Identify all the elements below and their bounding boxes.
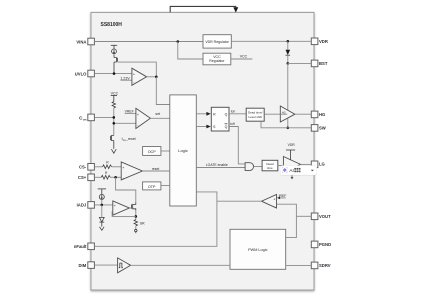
svg-text:SS8100H: SS8100H: [101, 22, 123, 28]
pin CS-: [88, 164, 95, 171]
wire PWM logic to SDRV: [286, 264, 312, 266]
wire dead time block to SW row: [261, 121, 311, 128]
pin HG: [311, 111, 318, 118]
wire OTP to Logic: [161, 185, 170, 187]
wire IREF input arrow: [279, 197, 286, 199]
wire Con to comparator input: [114, 122, 136, 124]
wire set output to Logic: [150, 117, 169, 119]
node VDR/diode junction: [287, 40, 290, 43]
ground (Con discharge): [111, 149, 116, 153]
svg-text:+: +: [114, 204, 116, 208]
wire R2 to comparator: [110, 176, 121, 178]
pin PGND: [311, 241, 318, 248]
wire VOUT row: [296, 215, 311, 217]
svg-text:VDR Regulator: VDR Regulator: [205, 40, 229, 44]
svg-text:Level shift: Level shift: [248, 115, 262, 119]
svg-text:on: on: [83, 117, 87, 121]
wire nFault row: [94, 192, 216, 246]
wire 1.23V reference input: [120, 79, 131, 81]
resistor R4 (SR): [134, 220, 137, 226]
svg-text:VDR: VDR: [319, 39, 328, 44]
wire VINA to VCC regulator: [178, 42, 203, 60]
svg-text:DIM: DIM: [79, 263, 87, 268]
op-amp U3 (on-time comparator): [136, 108, 151, 128]
op-amp U10 (current regulation amp): [262, 195, 277, 209]
svg-text:IADJ: IADJ: [77, 203, 87, 208]
transistor Q1 (UVLO hysteresis switch): [113, 54, 115, 57]
svg-text:nFault: nFault: [74, 244, 87, 249]
wire Con row: [94, 116, 113, 118]
wire OCP to Logic: [161, 150, 170, 152]
svg-text:SR: SR: [140, 222, 145, 226]
block Logic: [170, 95, 197, 206]
pin nFault: [88, 243, 95, 250]
sparkle icon: [282, 167, 287, 173]
svg-text:_reset: _reset: [125, 137, 136, 141]
svg-text:LG: LG: [319, 161, 325, 166]
node BST junction: [287, 62, 290, 65]
svg-text:VOUT: VOUT: [319, 214, 331, 219]
svg-text:+: +: [274, 198, 276, 202]
wire DIM buffer to PWM logic: [131, 264, 230, 266]
wire VCC regulator output stub: [231, 58, 253, 60]
IC body U1 (SS8100H outline): [91, 12, 314, 290]
svg-text:Dead time/: Dead time/: [248, 111, 263, 115]
wire SR to ground: [135, 226, 137, 229]
wire HG driver output: [295, 113, 311, 115]
wire IADJ row: [94, 204, 112, 206]
wire CS+ row: [94, 176, 101, 178]
block VDR Regulator: [203, 35, 231, 48]
wire VOUT to PWM logic: [286, 216, 297, 237]
wire VDR regulator output to VDR pin: [231, 40, 311, 42]
diode D1 (bootstrap VDR to BST): [286, 50, 291, 55]
svg-text:SW: SW: [319, 126, 326, 131]
pin VINA: [88, 38, 95, 45]
diode D2 (IADJ clamp): [99, 217, 104, 222]
AI assistant widget overlay: [280, 166, 317, 180]
node SW junction: [287, 127, 290, 130]
transistor Q2 (t_on_reset): [112, 136, 114, 141]
wire Q3 drain to CS+ node: [116, 177, 136, 202]
wire VDR to diode: [287, 41, 289, 50]
svg-text:OCP: OCP: [148, 150, 157, 154]
wire UVLO row: [94, 73, 131, 75]
svg-text:Q: Q: [225, 112, 228, 116]
svg-text:VINA: VINA: [76, 39, 86, 44]
svg-text:time: time: [267, 166, 273, 170]
svg-text:CS+: CS+: [78, 175, 87, 180]
resistor R2 (CS+): [101, 175, 110, 179]
svg-text:set: set: [155, 112, 160, 116]
pin UVLO: [88, 70, 95, 77]
op-amp U5 (IADJ amplifier): [113, 201, 130, 215]
transistor Q3 (IADJ output): [129, 207, 131, 209]
svg-text:Q: Q: [225, 125, 228, 129]
node VCC rail bar: [111, 94, 117, 96]
wire S input to latch: [196, 126, 206, 128]
wire Q to dead time block: [229, 113, 246, 115]
svg-text:VDR: VDR: [288, 143, 296, 147]
wire diode to BST row: [287, 55, 289, 63]
node Q3 source junction: [135, 215, 138, 218]
pin BST: [311, 60, 318, 67]
svg-text:HG: HG: [282, 112, 286, 115]
wire UVLO comparator output: [147, 76, 157, 78]
op-amp U11 (DIM buffer): [118, 258, 131, 273]
svg-text:+: +: [137, 113, 139, 117]
node Con branch junction: [113, 122, 116, 125]
current source I1 (UVLO pullup): [111, 44, 117, 46]
svg-text:CS-: CS-: [79, 165, 87, 170]
block Dead time (LG): [262, 160, 278, 171]
svg-text:Logic: Logic: [178, 148, 188, 153]
pin CS+: [88, 174, 95, 181]
wire dead time to HG driver: [264, 113, 280, 115]
node VINA/VCCreg junction: [177, 40, 180, 43]
node IADJ junction: [101, 204, 104, 207]
wire DIM row: [94, 264, 117, 266]
node Con/resistor junction: [113, 116, 116, 119]
node CS+ junction: [114, 176, 117, 179]
wire UVLO output to Logic: [156, 77, 170, 105]
wire CS- row: [94, 166, 102, 168]
svg-text:PWM Logic: PWM Logic: [248, 248, 268, 252]
flip-flop U6 (SR latch): [211, 107, 229, 131]
pin SDRV: [311, 262, 318, 269]
svg-text:VCC: VCC: [111, 91, 119, 95]
wire R1 to comparator: [112, 166, 122, 168]
svg-text:LGATE enable: LGATE enable: [206, 163, 228, 167]
svg-text:VCC: VCC: [213, 55, 221, 59]
svg-text:SDRV: SDRV: [319, 263, 331, 268]
svg-text:HG: HG: [319, 112, 325, 117]
pin IADJ: [88, 202, 95, 209]
wire Qbar to LG path: [229, 127, 245, 164]
wire HG driver low rail to SW: [287, 118, 289, 128]
op-amp U2 (UVLO comparator): [132, 68, 147, 85]
svg-text:Regulator: Regulator: [209, 59, 225, 63]
svg-text:UVLO: UVLO: [75, 71, 87, 76]
arrow into top edge: [233, 7, 238, 12]
block PWM Logic: [230, 229, 286, 269]
current source I2 (IADJ bias): [98, 188, 106, 190]
wire hysteresis feedback: [118, 62, 157, 77]
wire VINA row: [94, 41, 203, 43]
op-amp U4 (current sense comparator): [121, 162, 142, 180]
op-amp U7 (HG driver): [280, 106, 295, 122]
node UVLO output: [155, 76, 158, 79]
pin VDR: [311, 38, 318, 45]
svg-text:AI: AI: [289, 168, 293, 173]
svg-text:1.23V: 1.23V: [120, 76, 130, 80]
ground (IADJ clamp): [100, 227, 105, 231]
svg-text:BST: BST: [319, 61, 328, 66]
wire BST to HG driver top: [287, 63, 289, 110]
wire LG driver output: [301, 163, 312, 165]
pin VOUT: [311, 213, 318, 220]
wire LGATE enable: [196, 167, 245, 169]
svg-text:OTP: OTP: [148, 185, 156, 189]
pin DIM: [88, 262, 95, 269]
gate U8 (AND): [245, 163, 253, 171]
wire amp output to nFault net: [217, 200, 262, 202]
resistor R1 (CS-): [103, 165, 112, 169]
block OTP: [143, 182, 161, 190]
block OCP: [143, 147, 161, 156]
wire feedback to op-amp: [112, 212, 136, 217]
svg-text:VCC: VCC: [240, 54, 248, 58]
node UVLO junction: [113, 72, 116, 75]
svg-text:toff: toff: [230, 122, 234, 126]
pointer arrow below widget: [291, 175, 293, 177]
wire I2 to IADJ row: [101, 200, 103, 205]
node VDR rail bar: [286, 149, 295, 151]
wire R input to latch: [196, 113, 206, 115]
wire AND to dead time box: [254, 166, 263, 168]
wire Q3 source to SR resistor: [135, 211, 137, 220]
wire reset output to Logic: [142, 170, 169, 172]
svg-text:PGND: PGND: [319, 242, 331, 247]
wire IADJ to clamp diode: [101, 205, 103, 218]
block Dead time/Level shift: [246, 108, 264, 121]
block VCC Regulator: [203, 53, 231, 65]
svg-text:+: +: [122, 166, 124, 170]
pin SW: [311, 125, 318, 132]
wire BST row: [288, 62, 312, 64]
wire VREF input: [125, 112, 136, 114]
ground (SR): [135, 229, 137, 231]
wire amp inverting input from VOUT: [277, 204, 297, 216]
wire resistor to Con node: [113, 108, 115, 136]
wire top loop to arrow: [170, 6, 236, 12]
pin Con: [88, 114, 95, 121]
resistor R3 (Con charge): [112, 102, 115, 108]
wire dead time to LG driver: [278, 165, 284, 167]
op-amp U9 (LG driver): [283, 157, 300, 173]
svg-text:+: +: [133, 73, 135, 77]
svg-text:ton: ton: [231, 110, 236, 114]
pin LG: [311, 161, 318, 168]
